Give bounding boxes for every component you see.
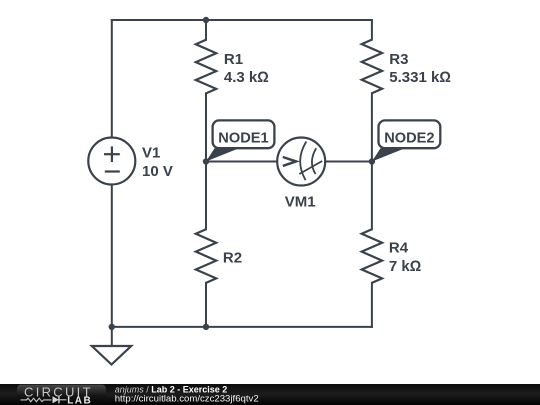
wire left vertical lower (V1 bottom to bottom wire) [111,185,113,327]
wire right branch upper (top wire to R3) [371,20,373,40]
VM1 chevron [283,157,296,166]
VM1 needle [299,161,322,174]
NODE1 callout tail [206,148,239,161]
svg-text:NODE2: NODE2 [384,129,434,146]
svg-text:LAB: LAB [67,395,92,405]
wire bottom horizontal [112,326,372,328]
svg-text:V1: V1 [142,145,160,162]
wire left vertical upper (top wire to V1 top) [111,20,113,138]
resistor R1 [196,40,216,94]
ground symbol [92,346,131,365]
wire right branch lower (R4 to bottom wire) [371,283,373,327]
wire top horizontal [112,19,372,21]
wire middle branch lower (R2 to bottom wire) [205,283,207,327]
svg-text:5.331 kΩ: 5.331 kΩ [389,69,451,86]
resistor R4 [362,229,382,283]
svg-text:NODE1: NODE1 [218,129,268,146]
svg-text:10 V: 10 V [142,163,173,180]
svg-text:R4: R4 [389,240,409,257]
voltmeter VM1 circle [277,138,325,186]
svg-text:http://circuitlab.com/czc233jf: http://circuitlab.com/czc233jf6qtv2 [115,394,259,405]
node NODE1 junction dot [203,158,209,164]
wire center horizontal right (VM1 to NODE2) [325,161,372,163]
V1 plus sign [104,146,120,162]
NODE1 callout box [213,120,275,148]
resistor R3 [362,40,382,94]
node junction dot bottom left [109,324,115,330]
V1 minus sign [105,170,120,172]
footer logo resistor squiggle [21,398,52,402]
node junction dot top [203,17,209,23]
svg-text:R2: R2 [223,250,242,267]
wire middle branch mid (R1 to R2 through NODE1) [205,93,207,229]
wire middle branch upper (top wire to R1) [205,20,207,40]
VM1 dial arc right [312,148,316,174]
wire ground stem [111,327,113,346]
wire center horizontal left (NODE1 to VM1) [206,161,277,163]
svg-text:VM1: VM1 [285,194,316,211]
resistor R2 [196,229,216,283]
svg-text:R3: R3 [389,51,408,68]
VM1 dial arc left [300,142,306,181]
footer logo panel [17,385,106,405]
svg-text:R1: R1 [224,51,243,68]
wire right branch mid (R3 to R4 through NODE2) [371,93,373,229]
voltage source V1 circle [88,138,135,185]
svg-text:4.3 kΩ: 4.3 kΩ [224,69,269,86]
node NODE2 junction dot [369,158,375,164]
svg-text:7 kΩ: 7 kΩ [389,258,421,275]
NODE2 callout tail [372,148,405,161]
footer logo diode [53,396,59,403]
node junction dot bottom middle [203,324,209,330]
NODE2 callout box [379,120,441,148]
